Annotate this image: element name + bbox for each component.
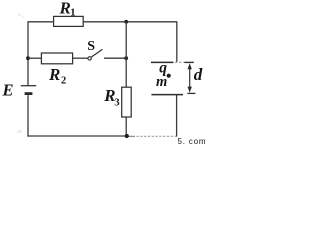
- battery E short plate: [25, 92, 33, 95]
- svg-text:2: 2: [61, 75, 66, 86]
- wire middle vertical upper: [125, 22, 127, 87]
- wire switch to middle node: [104, 57, 126, 59]
- svg-text:5. com: 5. com: [178, 137, 207, 146]
- node junction top: [124, 20, 128, 24]
- dimension arrow d (double headed): [188, 63, 192, 92]
- wire bottom solid: [27, 135, 128, 137]
- wire left vertical upper: [27, 21, 29, 85]
- wire middle vertical lower: [125, 117, 127, 136]
- capacitor top plate right tick: [184, 61, 193, 63]
- watermark speck bottom-left: [17, 130, 22, 133]
- wire bottom faded dashes: [129, 135, 136, 137]
- svg-text:d: d: [194, 65, 203, 84]
- svg-text:R: R: [59, 0, 71, 17]
- capacitor bottom plate: [151, 94, 183, 96]
- svg-text:m: m: [156, 74, 167, 90]
- wire branch R2 left: [28, 57, 41, 59]
- switch S lever: [91, 49, 102, 57]
- battery E long plate: [21, 85, 36, 87]
- svg-text:S: S: [87, 39, 95, 54]
- node junction left: [26, 56, 30, 60]
- watermark speck top-left: [18, 13, 21, 16]
- capacitor top plate: [151, 61, 174, 63]
- resistor R1: [54, 16, 84, 26]
- wire right vertical upper (to capacitor): [176, 22, 178, 63]
- node junction bottom: [125, 134, 129, 138]
- resistor R3: [122, 87, 132, 117]
- wire left vertical lower: [27, 95, 29, 137]
- wire right vertical lower: [176, 95, 178, 137]
- capacitor top plate faded part: [175, 61, 185, 63]
- wire R2 to switch: [73, 57, 88, 59]
- wire top-left segment: [28, 21, 54, 23]
- node junction middle: [124, 56, 128, 60]
- switch S pivot: [88, 57, 91, 60]
- svg-text:1: 1: [70, 7, 75, 18]
- particle dot: [167, 74, 171, 78]
- svg-text:3: 3: [114, 97, 119, 108]
- capacitor bottom plate right tick: [187, 92, 195, 94]
- resistor R2: [41, 53, 72, 64]
- svg-text:R: R: [48, 65, 60, 84]
- wire R1 to top-right corner: [83, 21, 177, 23]
- svg-text:E: E: [2, 81, 14, 100]
